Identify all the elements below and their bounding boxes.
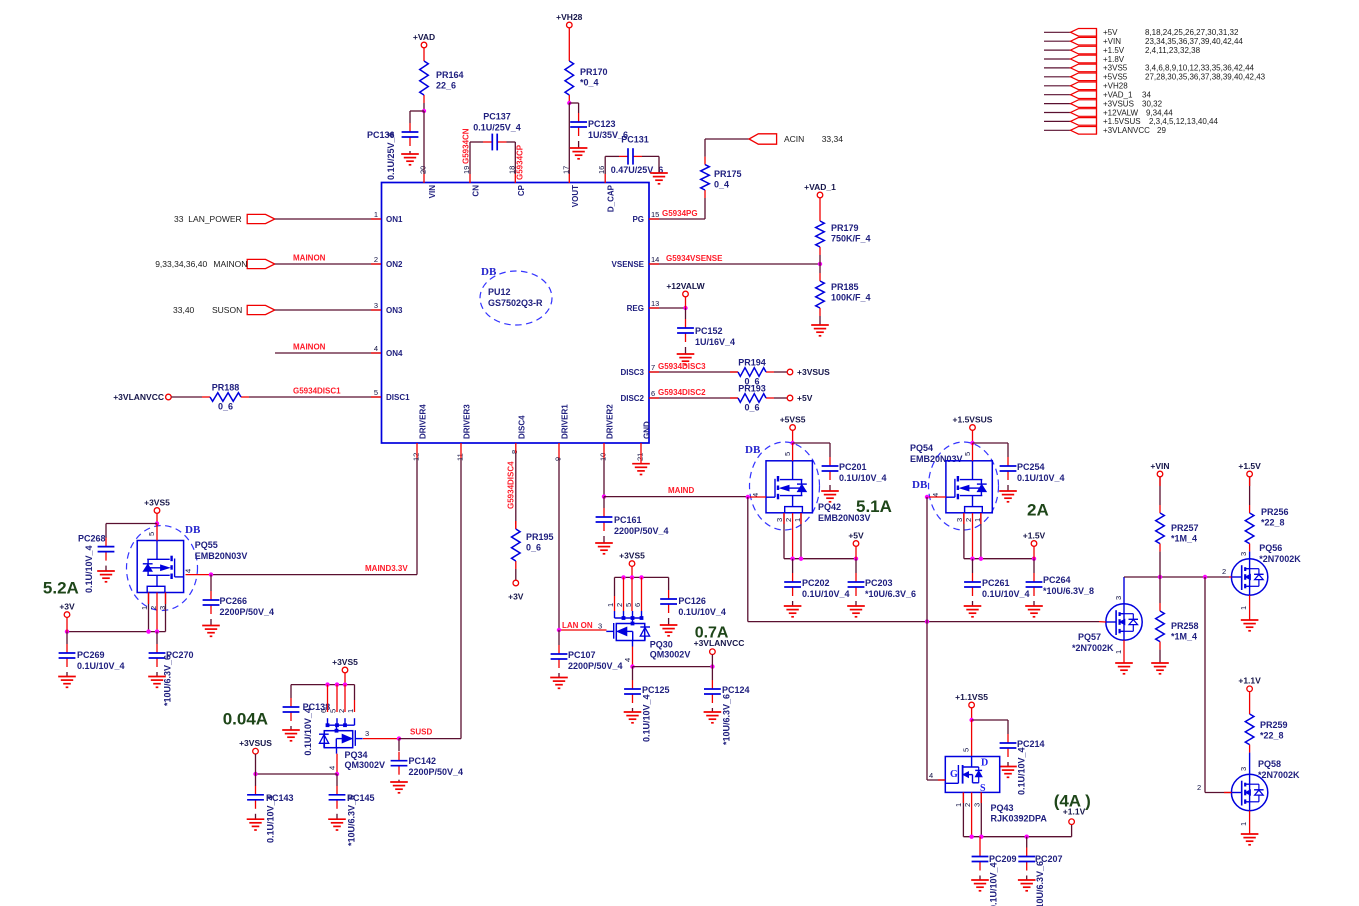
junction	[155, 521, 159, 525]
pin 5 label PQ55	[147, 532, 156, 536]
wire	[979, 837, 981, 848]
capacitor PC214 labels	[1017, 739, 1045, 795]
wire	[578, 103, 580, 113]
current label 5.2A	[43, 579, 79, 598]
wire	[398, 780, 400, 782]
svg-text:PQ34: PQ34	[345, 750, 368, 760]
wire	[1249, 477, 1251, 505]
wire	[631, 566, 633, 577]
svg-text:G5934PG: G5934PG	[662, 209, 698, 218]
ground	[624, 712, 642, 723]
svg-text:PR193: PR193	[738, 384, 766, 394]
svg-text:0_6: 0_6	[218, 402, 233, 412]
resistor PR164	[420, 53, 464, 103]
wire	[800, 513, 802, 559]
wire	[371, 263, 381, 265]
power +5VS5	[780, 414, 806, 430]
svg-text:6: 6	[651, 389, 655, 398]
junction	[979, 557, 983, 561]
svg-text:1: 1	[1239, 822, 1248, 826]
svg-text:DISC4: DISC4	[517, 415, 526, 439]
svg-text:*10U/6.3V_6: *10U/6.3V_6	[722, 694, 732, 745]
svg-text:2200P/50V_4: 2200P/50V_4	[568, 661, 623, 671]
svg-text:PC161: PC161	[614, 515, 642, 525]
svg-text:2: 2	[1197, 783, 1201, 792]
wire	[603, 443, 605, 458]
svg-text:PC125: PC125	[642, 685, 670, 695]
svg-text:0.1U/10V_4: 0.1U/10V_4	[678, 607, 726, 617]
ground	[964, 606, 982, 617]
svg-text:4: 4	[328, 766, 337, 770]
svg-text:GS7502Q3-R: GS7502Q3-R	[488, 298, 543, 308]
svg-text:PR258: PR258	[1171, 621, 1199, 631]
wire	[1249, 753, 1251, 775]
wire	[711, 667, 713, 680]
svg-text:2200P/50V_4: 2200P/50V_4	[409, 767, 464, 777]
svg-text:ON4: ON4	[386, 349, 403, 358]
svg-text:QM3002V: QM3002V	[650, 650, 691, 660]
svg-text:PQ30: PQ30	[650, 640, 673, 650]
power +12VALW	[666, 281, 705, 297]
svg-text:VIN: VIN	[428, 185, 437, 199]
svg-text:PC107: PC107	[568, 650, 596, 660]
ground	[148, 677, 166, 688]
svg-text:2200P/50V_4: 2200P/50V_4	[220, 607, 275, 617]
svg-text:*0_4: *0_4	[580, 78, 599, 88]
pin labels PQ54 3 2 1	[955, 518, 982, 522]
net label G5934CN	[462, 128, 471, 164]
svg-text:PC266: PC266	[220, 596, 248, 606]
wire	[148, 593, 150, 632]
svg-text:3,4,6,8,9,10,12,33,35,36,42,44: 3,4,6,8,9,10,12,33,35,36,42,44	[1145, 64, 1255, 73]
power +1.1V	[1063, 807, 1086, 825]
svg-text:G5934DISC2: G5934DISC2	[658, 388, 706, 397]
svg-text:2: 2	[963, 803, 972, 807]
svg-text:9,34,44: 9,34,44	[1146, 108, 1173, 117]
svg-text:0.1U/10V_4: 0.1U/10V_4	[77, 661, 125, 671]
svg-text:MAIND3.3V: MAIND3.3V	[365, 564, 408, 573]
wire	[105, 524, 107, 539]
pin 5 label PQ42	[783, 452, 792, 456]
ground	[401, 154, 419, 165]
wire	[558, 458, 560, 630]
svg-text:EMB20N03V: EMB20N03V	[910, 454, 963, 464]
svg-text:+3VS5: +3VS5	[619, 550, 645, 560]
wire	[515, 569, 517, 580]
svg-text:G: G	[950, 769, 958, 780]
svg-text:PC203: PC203	[865, 578, 893, 588]
svg-text:1U/16V_4: 1U/16V_4	[695, 337, 735, 347]
svg-text:2,3,4,5,12,13,40,44: 2,3,4,5,12,13,40,44	[1149, 117, 1219, 126]
wire	[972, 513, 974, 559]
svg-text:PQ55: PQ55	[195, 540, 218, 550]
junction	[979, 835, 983, 839]
svg-text:MAINON: MAINON	[293, 343, 326, 352]
wire	[514, 174, 516, 183]
wire	[165, 593, 167, 605]
wire	[972, 430, 974, 443]
ground	[811, 325, 829, 336]
svg-text:7: 7	[651, 363, 655, 372]
svg-text:0.1U/25V_4: 0.1U/25V_4	[473, 123, 521, 133]
power +1.1VS5	[955, 692, 988, 708]
svg-text:5.1A: 5.1A	[856, 497, 892, 516]
ground	[1151, 663, 1169, 674]
wire	[980, 792, 982, 836]
power +1.1V	[1238, 676, 1261, 692]
junction	[683, 306, 687, 310]
wire	[603, 536, 605, 543]
wire	[291, 684, 355, 686]
transistor PQ54 DB ellipse	[912, 442, 999, 530]
pin 3 label PQ56	[1239, 552, 1248, 556]
svg-text:DB: DB	[481, 266, 497, 278]
svg-text:5: 5	[962, 748, 971, 752]
svg-text:27,28,30,35,36,37,38,39,40,42,: 27,28,30,35,36,37,38,39,40,42,43	[1145, 73, 1266, 82]
wire	[668, 577, 670, 590]
svg-text:ON3: ON3	[386, 306, 403, 315]
svg-text:PR185: PR185	[831, 282, 859, 292]
wire	[171, 396, 202, 398]
svg-text:PQ54: PQ54	[910, 443, 933, 453]
junction	[1025, 835, 1029, 839]
pin labels PQ55 1 2 3	[140, 606, 167, 610]
svg-text:+3VS5: +3VS5	[144, 497, 170, 507]
svg-text:MAINON: MAINON	[293, 254, 326, 263]
junction	[790, 557, 794, 561]
wire	[1123, 640, 1125, 663]
svg-text:5: 5	[963, 452, 972, 456]
svg-text:5: 5	[783, 452, 792, 456]
node +3VSUS off-page connector	[1044, 99, 1163, 108]
power +VH28	[556, 12, 582, 28]
wire	[633, 666, 713, 668]
resistor PR188	[202, 383, 249, 412]
pin 5 label PQ43	[962, 748, 971, 752]
wire	[363, 738, 399, 740]
svg-text:5.2A: 5.2A	[43, 579, 79, 598]
wire	[558, 443, 560, 458]
node +1.5VSUS off-page connector	[1044, 117, 1219, 126]
svg-text:+3VSUS: +3VSUS	[797, 367, 830, 377]
svg-text:0.7A: 0.7A	[695, 625, 729, 642]
junction	[630, 575, 634, 579]
svg-text:PQ42: PQ42	[818, 502, 841, 512]
svg-text:DB: DB	[745, 444, 761, 456]
capacitor	[149, 644, 166, 667]
wire	[615, 576, 669, 578]
capacitor	[972, 848, 989, 871]
power +VAD_1	[804, 182, 836, 198]
svg-text:34: 34	[1142, 91, 1151, 100]
wire	[685, 297, 687, 308]
ground	[784, 606, 802, 617]
ground	[595, 543, 613, 554]
svg-text:+1.5V: +1.5V	[1103, 46, 1125, 55]
svg-text:+1.5V: +1.5V	[1023, 530, 1046, 540]
wire	[460, 458, 462, 739]
capacitor PC152	[677, 319, 735, 347]
wire	[632, 667, 634, 680]
wire	[66, 672, 68, 677]
wire	[156, 593, 158, 632]
current label 0.04A	[223, 710, 268, 729]
wire	[1159, 650, 1161, 663]
capacitor PC202	[784, 573, 849, 599]
wire	[255, 814, 257, 819]
power +5V	[787, 393, 812, 403]
svg-text:SUSD: SUSD	[410, 728, 432, 737]
node +3VLANVCC off-page connector	[1044, 126, 1166, 135]
svg-text:VSENSE: VSENSE	[612, 260, 645, 269]
capacitor PC207 labels	[1035, 854, 1063, 906]
wire	[631, 577, 633, 611]
svg-text:EMB20N03V: EMB20N03V	[195, 551, 248, 561]
svg-text:*1M_4: *1M_4	[1171, 632, 1197, 642]
wire	[649, 371, 738, 373]
wire	[399, 738, 461, 740]
wire	[649, 263, 820, 265]
svg-text:PC126: PC126	[678, 596, 706, 606]
svg-text:DISC1: DISC1	[386, 393, 410, 402]
node +5VS5 off-page connector	[1044, 73, 1266, 82]
svg-text:1: 1	[1239, 606, 1248, 610]
wire	[578, 141, 580, 148]
wire	[614, 577, 616, 596]
transistor PQ57	[1072, 604, 1142, 653]
wire	[290, 685, 292, 698]
ground	[704, 712, 722, 723]
wire	[632, 647, 634, 667]
wire	[711, 655, 713, 667]
power +3VSUS	[787, 367, 830, 377]
wire	[210, 619, 212, 626]
ground	[999, 767, 1017, 778]
svg-text:+3VS5: +3VS5	[1103, 64, 1128, 73]
wire	[354, 700, 356, 712]
current label 2A	[1027, 501, 1049, 520]
svg-text:9: 9	[554, 457, 563, 461]
wire	[290, 726, 292, 730]
wire	[658, 156, 660, 173]
wire	[972, 443, 974, 461]
svg-text:33,40: 33,40	[173, 305, 195, 315]
svg-text:DRIVER1: DRIVER1	[561, 404, 570, 439]
net label G5934VSENSE	[666, 254, 723, 263]
power +3VS5	[619, 550, 645, 566]
wire	[1033, 601, 1035, 606]
wire	[792, 559, 794, 573]
svg-text:1: 1	[954, 803, 963, 807]
capacitor PC254	[1000, 457, 1065, 483]
svg-text:+VAD: +VAD	[413, 32, 435, 42]
wire	[748, 621, 1099, 623]
svg-text:3: 3	[955, 518, 964, 522]
junction	[1032, 557, 1036, 561]
svg-text:0_4: 0_4	[714, 180, 729, 190]
capacitor PC209 labels	[989, 854, 1017, 906]
svg-text:PC123: PC123	[588, 119, 616, 129]
svg-text:DRIVER2: DRIVER2	[606, 404, 615, 439]
wire	[649, 218, 659, 220]
wire	[1123, 577, 1125, 604]
svg-text:+1.1VS5: +1.1VS5	[955, 692, 988, 702]
svg-text:PC269: PC269	[77, 650, 105, 660]
svg-text:S: S	[980, 783, 986, 794]
capacitor	[98, 538, 115, 561]
wire	[604, 156, 606, 174]
wire	[704, 198, 706, 219]
net label G5934DISC1	[293, 387, 341, 396]
svg-text:+3VSUS: +3VSUS	[1103, 99, 1134, 108]
svg-text:29: 29	[1157, 126, 1166, 135]
wire	[800, 513, 802, 524]
svg-text:PQ58: PQ58	[1258, 759, 1281, 769]
wire	[980, 513, 982, 524]
net label G5934CP	[516, 144, 525, 180]
svg-text:ACIN: ACIN	[784, 134, 804, 144]
power +VAD	[413, 32, 435, 48]
svg-text:5: 5	[147, 532, 156, 536]
wire	[604, 174, 606, 183]
net label MAINON on ON4	[293, 343, 326, 352]
svg-text:0.1U/10V_4: 0.1U/10V_4	[802, 589, 850, 599]
wire	[275, 309, 381, 311]
wire	[156, 513, 158, 523]
net label G5934DISC4	[507, 461, 516, 509]
wire	[344, 685, 346, 712]
wire	[819, 264, 821, 273]
pin 4 label PQ42	[751, 493, 760, 497]
pin labels PQ42 3 2 1	[775, 518, 802, 522]
svg-text:DISC2: DISC2	[620, 394, 644, 403]
capacitor PC142	[391, 752, 463, 777]
ground	[1115, 663, 1133, 674]
svg-text:0.1U/10V_4: 0.1U/10V_4	[642, 694, 652, 742]
svg-text:PQ57: PQ57	[1078, 632, 1101, 642]
wire	[275, 218, 381, 220]
svg-text:+VH28: +VH28	[556, 12, 582, 22]
svg-text:PC268: PC268	[78, 534, 106, 544]
capacitor PC269	[59, 644, 125, 671]
wire	[156, 524, 158, 541]
wire	[1071, 825, 1073, 837]
resistor PR170	[565, 53, 608, 103]
svg-text:3: 3	[1239, 552, 1248, 556]
wire	[275, 352, 381, 354]
capacitor PC145 labels	[347, 793, 375, 846]
svg-text:0.1U/10V_4: 0.1U/10V_4	[839, 473, 887, 483]
svg-text:2A: 2A	[1027, 501, 1049, 520]
svg-text:3: 3	[775, 518, 784, 522]
svg-text:PC131: PC131	[621, 135, 649, 145]
ground	[550, 678, 568, 689]
transistor PQ42 DB ellipse	[745, 442, 820, 530]
wire	[855, 601, 857, 606]
wire	[409, 151, 411, 154]
capacitor PC203	[848, 573, 916, 599]
svg-text:3: 3	[1239, 767, 1248, 771]
svg-text:+VAD_1: +VAD_1	[1103, 91, 1133, 100]
junction	[970, 441, 974, 445]
wire	[748, 496, 766, 498]
svg-text:LAN_POWER: LAN_POWER	[188, 214, 241, 224]
IC PU12 DB ellipse	[480, 266, 552, 325]
resistor PR179	[816, 213, 871, 255]
svg-text:*2N7002K: *2N7002K	[1072, 643, 1114, 653]
wire	[275, 263, 381, 265]
svg-text:*22_8: *22_8	[1261, 518, 1285, 528]
svg-text:10: 10	[599, 453, 608, 461]
wire	[783, 513, 785, 524]
wire	[249, 396, 381, 398]
svg-text:2: 2	[1222, 567, 1226, 576]
wire	[972, 559, 974, 573]
wire	[784, 558, 856, 560]
pin 4 label PQ54	[931, 493, 940, 497]
svg-text:LAN ON: LAN ON	[562, 621, 593, 630]
ground	[999, 491, 1017, 502]
svg-text:VOUT: VOUT	[571, 185, 580, 207]
wire	[371, 352, 381, 354]
resistor PR256	[1245, 505, 1288, 552]
node SUSON input connector	[173, 305, 275, 315]
ground	[202, 626, 220, 637]
power +VIN	[1150, 461, 1169, 477]
junction	[209, 572, 213, 576]
svg-text:PR188: PR188	[212, 383, 240, 393]
wire	[963, 513, 965, 524]
transistor PQ43	[945, 757, 999, 795]
wire	[558, 673, 560, 678]
power +3VS5	[144, 497, 170, 513]
ground	[390, 782, 408, 793]
power +3VS5	[332, 657, 358, 673]
pin 4 label PQ43	[929, 771, 933, 780]
svg-text:3: 3	[598, 622, 602, 631]
junction	[854, 557, 858, 561]
junction	[557, 628, 561, 632]
capacitor PC107 labels	[568, 650, 623, 671]
capacitor PC131	[611, 135, 664, 176]
wire	[938, 779, 945, 781]
junction	[710, 664, 714, 668]
pin 4 label PQ30	[623, 658, 632, 662]
wire	[460, 443, 462, 458]
wire	[747, 497, 749, 622]
wire	[409, 111, 411, 123]
svg-text:*10U/6.3V_6: *10U/6.3V_6	[865, 589, 916, 599]
capacitor PC261	[964, 573, 1029, 599]
node +VH28 off-page connector	[1044, 82, 1128, 91]
svg-text:+1.1V: +1.1V	[1238, 676, 1261, 686]
svg-text:MAIND: MAIND	[668, 486, 694, 495]
net label LAN ON3	[562, 621, 602, 631]
svg-text:+3V: +3V	[508, 592, 524, 602]
wire	[515, 521, 517, 529]
capacitor PC124 labels	[722, 685, 750, 745]
svg-text:23,34,35,36,37,39,40,42,44: 23,34,35,36,37,39,40,42,44	[1145, 37, 1243, 46]
wire	[1026, 876, 1028, 881]
capacitor	[1018, 848, 1035, 871]
wire	[649, 218, 705, 220]
node +3VS5 off-page connector	[1044, 64, 1255, 73]
svg-text:+3VSUS: +3VSUS	[239, 738, 272, 748]
wire	[1249, 552, 1251, 559]
wire	[623, 577, 625, 611]
power +3V	[508, 580, 524, 601]
svg-text:QM3002V: QM3002V	[345, 760, 386, 770]
